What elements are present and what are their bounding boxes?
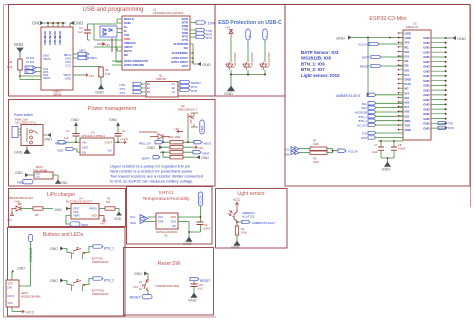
svg-text:VSS: VSS (171, 220, 177, 224)
svg-text:GND: GND (147, 146, 155, 150)
ground flag above LED1 (12, 267, 25, 281)
resistor RN2a (170, 141, 183, 144)
capacitor C1 1uF (64, 129, 80, 142)
svg-text:E1: E1 (147, 86, 151, 90)
svg-text:GND: GND (405, 36, 411, 40)
ground flag below R2 (95, 77, 104, 95)
net flag SCL (pullup) (285, 147, 299, 152)
svg-text:DTR: DTR (208, 22, 216, 26)
svg-text:1uF: 1uF (198, 287, 203, 291)
svg-text:VBAT: VBAT (81, 223, 89, 227)
svg-text:GND: GND (423, 126, 429, 130)
svg-text:EN: EN (405, 64, 409, 68)
net flag VCC3V (to EN pin) (358, 42, 403, 46)
net flag SDA (pullup) (284, 151, 299, 157)
net flag SBU1 (73, 49, 89, 56)
junction dots on GND bus (47, 22, 64, 24)
svg-text:GND: GND (54, 208, 62, 212)
wire pullups (299, 149, 338, 153)
svg-text:BTN_2: BTN_2 (104, 279, 114, 283)
section box ESP32-C3-Mini (285, 5, 470, 187)
junction light (236, 221, 238, 223)
net flag AMBIENT/LIGHT (237, 220, 275, 225)
net flag BATP (362, 55, 403, 59)
svg-text:GND: GND (423, 117, 429, 121)
IC U5 SHT41 (156, 213, 178, 238)
svg-text:NC: NC (405, 87, 409, 91)
svg-text:SCL: SCL (130, 215, 136, 219)
section box Buttons and LEDs (8, 228, 126, 317)
ground flag (ESP32 top-left) (336, 36, 368, 41)
svg-text:D3 ESD5B5: D3 ESD5B5 (251, 52, 254, 66)
wires RN2 left (160, 127, 196, 157)
ground (reset cap) (188, 293, 197, 303)
svg-text:Light sensor: Light sensor (237, 191, 265, 197)
svg-text:BRCM0335AC1UDA: BRCM0335AC1UDA (9, 196, 33, 200)
svg-text:GND: GND (423, 60, 429, 64)
wire branch 1 (230, 36, 232, 62)
svg-text:GND: GND (423, 41, 429, 45)
svg-text:SDA: SDA (130, 221, 136, 225)
svg-text:NSR0320MW2: NSR0320MW2 (139, 130, 158, 134)
svg-text:AP2112K-3.3TRG1: AP2112K-3.3TRG1 (81, 134, 105, 138)
svg-text:GND: GND (336, 36, 345, 41)
ground flag (button 1) (50, 247, 69, 253)
svg-text:WS2812B: WS2812B (29, 248, 33, 262)
svg-text:SDA: SDA (284, 153, 290, 157)
wire VOUT to +VCC (114, 141, 122, 143)
net flags right of Q1: RESET RTS DTR (177, 80, 201, 93)
net flag RESET (cap branch) (190, 277, 211, 284)
svg-text:LiPo charger: LiPo charger (47, 192, 76, 198)
svg-text:100k: 100k (241, 231, 247, 235)
resistor R8 10k (310, 151, 327, 164)
svg-text:BUTTON: BUTTON (92, 257, 103, 261)
ground flag right of U1 (197, 62, 211, 67)
svg-text:RN2 100k: RN2 100k (168, 135, 181, 139)
battery connector BAT1 (33, 165, 53, 179)
junction C2/VOUT (117, 141, 119, 143)
svg-text:IO7: IO7 (405, 105, 410, 109)
label BUTTON1 SKRPACE010 (92, 289, 109, 297)
net flag WS2812B vertical (28, 235, 33, 263)
left pin stubs of U1 (94, 19, 122, 65)
svg-text:GND: GND (50, 247, 58, 251)
svg-text:GND: GND (423, 50, 429, 54)
svg-text:GND: GND (423, 55, 429, 59)
svg-text:VCC3V: VCC3V (199, 195, 203, 204)
net flag VCC3V vertical (198, 192, 202, 217)
net flag REG_5V (to VIN) (55, 141, 80, 146)
svg-text:IO5: IO5 (405, 96, 410, 100)
svg-text:BTN_2: IO7: BTN_2: IO7 (301, 67, 325, 72)
net flag RESET (below switch) (130, 291, 152, 300)
resistor R4 100k (235, 226, 247, 235)
svg-text:AL-LPT1Q: AL-LPT1Q (242, 214, 254, 218)
svg-text:VBUS: VBUS (43, 36, 47, 45)
svg-text:GND: GND (17, 267, 25, 271)
svg-text:VSS: VSS (73, 210, 79, 214)
labels Q3 (242, 211, 256, 218)
transistor pair Q1 UMH3N (auto reset) (146, 74, 178, 98)
svg-text:Buttons and LEDs: Buttons and LEDs (43, 232, 84, 238)
wire WS2812B net to LED1 DIN (19, 242, 31, 287)
svg-text:WS2812B: IO8: WS2812B: IO8 (301, 56, 331, 61)
svg-text:GND: GND (457, 36, 466, 41)
svg-text:D+: D+ (248, 34, 252, 38)
svg-text:CP2102N-A01-GQFN24: CP2102N-A01-GQFN24 (153, 11, 184, 15)
svg-text:SKRPACE010: SKRPACE010 (92, 292, 109, 296)
IC U4 MCP73831 (66, 196, 99, 219)
LED LED1 WS2812B-MINI (6, 280, 41, 307)
ground flag (RN2 row4 right) (196, 155, 209, 160)
svg-text:+5V: +5V (198, 146, 203, 150)
svg-text:DTR: DTR (119, 83, 125, 87)
svg-text:+5V: +5V (7, 218, 12, 222)
svg-text:+3V: +3V (105, 43, 110, 47)
svg-text:SCL: SCL (362, 102, 368, 106)
svg-text:SCL: SCL (285, 148, 291, 152)
switch SW BTN1 (69, 247, 85, 259)
junctions SHT (188, 216, 201, 233)
wire branch 2 (247, 40, 249, 62)
svg-text:C9: C9 (204, 223, 208, 227)
svg-text:VBAT: VBAT (17, 181, 25, 185)
wire LED to R5 (21, 208, 33, 210)
svg-text:U4: U4 (79, 196, 83, 200)
ground below switch (14, 146, 30, 155)
svg-text:VIN: VIN (82, 141, 87, 145)
net flag BATP (RN2 row4) (142, 156, 160, 161)
USB-C connector J1 (41, 27, 73, 97)
net flags bottom-right (TXD RXD) (438, 122, 454, 131)
net flag REG_5V (RN2 row1) (139, 141, 163, 146)
wire GND bus above USB-C connector (44, 23, 72, 27)
svg-text:GND: GND (405, 32, 411, 36)
svg-text:1TS006B-2300-4300: 1TS006B-2300-4300 (155, 284, 180, 288)
svg-text:Temperature/Humidity: Temperature/Humidity (143, 196, 191, 202)
svg-text:RTS: RTS (120, 87, 126, 91)
svg-text:BATP: BATP (362, 56, 370, 60)
section box Power management (9, 100, 216, 187)
junctions on join bus (230, 74, 266, 76)
svg-text:DOUT: DOUT (8, 295, 16, 298)
power flag VCC3V (pullups) (338, 149, 358, 154)
svg-text:U5: U5 (164, 234, 168, 238)
svg-text:E2: E2 (172, 86, 176, 90)
net flags left of Q1 (119, 82, 145, 95)
svg-text:RESET: RESET (200, 279, 211, 283)
junctions right of U1 (192, 52, 194, 63)
section box ESD Protection on USB-C (215, 5, 285, 97)
net flag SCL (SHT41) (130, 215, 148, 221)
svg-text:WS2812B-MINI: WS2812B-MINI (21, 295, 41, 299)
ground flag left of BAT1 (15, 171, 34, 177)
svg-text:A7 B11: A7 B11 (26, 61, 35, 64)
power arrow +5V (RN2 row2 right) (193, 146, 203, 150)
svg-text:VDD: VDD (57, 149, 64, 153)
capacitor C2 1uF (115, 129, 126, 142)
svg-text:GND: GND (44, 138, 52, 142)
ground symbol below ESD diodes (224, 86, 235, 96)
svg-text:GND: GND (423, 84, 429, 88)
net flag DTR (196, 21, 216, 26)
transistor Q2 symbol (188, 113, 198, 127)
power arrow +5V (VDD) (99, 216, 105, 226)
svg-text:EXT: EXT (182, 64, 188, 68)
svg-text:EP: EP (172, 224, 176, 228)
svg-text:RTS: RTS (206, 36, 212, 40)
switch SW2 body (21, 125, 43, 146)
svg-text:TXD: TXD (405, 124, 411, 128)
svg-text:VBUS: VBUS (48, 36, 52, 45)
svg-text:VBUS: VBUS (43, 57, 51, 61)
svg-text:10k0: 10k0 (313, 160, 319, 164)
svg-text:RESET: RESET (130, 296, 141, 300)
resistor R1 5.1k (7, 59, 22, 76)
svg-text:GND: GND (423, 69, 429, 73)
svg-text:GND: GND (224, 91, 233, 96)
svg-text:B2: B2 (147, 90, 151, 94)
svg-text:Power switch: Power switch (14, 113, 33, 117)
svg-text:VBUS: VBUS (203, 142, 211, 146)
svg-text:D2 ESD5B5: D2 ESD5B5 (234, 52, 237, 66)
svg-text:BTN_1: BTN_1 (359, 115, 368, 119)
svg-text:GND: GND (32, 21, 41, 26)
svg-text:STAT: STAT (73, 207, 80, 211)
svg-text:GND: GND (423, 107, 429, 111)
ground symbol (left, above R1) (14, 42, 23, 59)
svg-text:C7: C7 (374, 143, 378, 147)
svg-text:GND: GND (60, 181, 68, 185)
svg-text:Power management: Power management (88, 106, 137, 112)
net flag AMBIENT/LIGHT (336, 93, 403, 98)
svg-text:C8: C8 (398, 143, 402, 147)
svg-text:C2: C2 (172, 90, 176, 94)
net flag VBUS (RN2 row1 right) (194, 141, 211, 146)
ground flag (reset switch) (134, 272, 148, 279)
ground (light sensor) (231, 235, 240, 250)
svg-text:GND: GND (82, 146, 88, 150)
svg-text:to IO3, so ESP32 can measure b: to IO3, so ESP32 can measure battery vol… (110, 179, 193, 184)
svg-text:5.1k: 5.1k (105, 72, 111, 76)
svg-text:3V3: 3V3 (405, 41, 410, 45)
svg-text:D+: D+ (26, 66, 30, 70)
svg-text:SCL: SCL (158, 215, 164, 219)
svg-text:UMH3N: UMH3N (156, 77, 166, 81)
svg-text:16PIN: 16PIN (53, 93, 61, 97)
svg-text:Reset SW: Reset SW (158, 261, 181, 267)
ground flag (STAT net) (54, 207, 70, 212)
svg-text:IO6: IO6 (405, 101, 410, 105)
wire GND join bus (231, 70, 265, 86)
net flag VBAT (below U4) (66, 216, 89, 228)
svg-text:SK-12D02-CT-L1: SK-12D02-CT-L1 (15, 121, 37, 125)
svg-text:10k0: 10k0 (313, 142, 319, 146)
svg-text:VBAT: VBAT (200, 125, 204, 132)
svg-text:GND: GND (423, 122, 429, 126)
svg-text:NC: NC (108, 149, 112, 153)
svg-text:GND: GND (202, 62, 211, 67)
ESD array U7 (blue) (100, 26, 117, 37)
svg-text:VOUT: VOUT (105, 141, 113, 145)
svg-text:PROG: PROG (89, 207, 97, 211)
svg-text:VDD: VDD (91, 214, 97, 218)
svg-text:R1: R1 (9, 60, 13, 64)
svg-text:VBUS: VBUS (53, 36, 57, 45)
junction C1/VIN (75, 141, 77, 143)
capacitor C4 (78, 24, 91, 40)
svg-text:GND: GND (423, 112, 429, 116)
svg-text:VCC3V: VCC3V (358, 43, 368, 47)
net flag BTN_2 (85, 277, 114, 285)
ground flag GND (second, top of connector) (70, 21, 83, 26)
note text (resistor explanation, 4 lines) (110, 164, 203, 184)
net flag VBAT (RN2 row3 right) (193, 151, 210, 156)
svg-text:C1: C1 (172, 82, 176, 86)
net flag D+ vertical (branch 2 top) (246, 29, 252, 40)
net flags column (SCL SDA WS2812B BTN_1 BTN_2 ...) (355, 102, 403, 128)
wire (net from GND down left side) (368, 38, 403, 95)
svg-text:GPIO.2/RS485: GPIO.2/RS485 (124, 63, 144, 67)
wire D+/D- to CP2102 (88, 24, 123, 62)
capacitor C8 100nF (391, 143, 406, 151)
svg-text:ESP32-C3: ESP32-C3 (406, 25, 419, 29)
wire VDD net (178, 217, 201, 237)
svg-text:IO2: IO2 (405, 50, 410, 54)
svg-text:GND: GND (50, 279, 58, 283)
svg-text:GND: GND (183, 242, 192, 246)
svg-text:GND: GND (14, 42, 23, 47)
net flags TXD RXD (361, 131, 403, 140)
net flag BTN_1 (85, 245, 114, 253)
svg-text:VBAT: VBAT (202, 152, 210, 156)
svg-text:IO3: IO3 (405, 55, 410, 59)
diode D1 NSR0320MW2 (139, 130, 169, 139)
svg-text:AMBIENT/LIGHT: AMBIENT/LIGHT (252, 221, 275, 225)
svg-text:VDD: VDD (170, 215, 176, 219)
svg-text:B1: B1 (147, 82, 151, 86)
ground flag above C2 (109, 118, 120, 134)
ground flag right of switch (43, 133, 52, 142)
capacitor C10 (191, 283, 204, 293)
svg-text:D4 ESD5B5: D4 ESD5B5 (268, 52, 271, 66)
svg-text:RTS: RTS (120, 91, 126, 95)
svg-text:GND: GND (65, 77, 71, 81)
wire VBUS with +5V arrow (73, 74, 94, 79)
svg-text:GND: GND (423, 36, 429, 40)
svg-text:GND: GND (201, 156, 209, 160)
svg-text:IO9: IO9 (405, 114, 410, 118)
ground flag above C1 (71, 118, 79, 134)
net flag D+ (left) (25, 66, 41, 70)
wire BAT1 right to GND (53, 175, 68, 185)
wire decoupling bus (378, 141, 403, 162)
resistor RN2d (170, 156, 183, 159)
section box USB and programming (9, 5, 216, 97)
svg-text:1uF: 1uF (64, 136, 69, 140)
power arrow +VCC (120, 137, 129, 144)
svg-text:IO4: IO4 (405, 91, 410, 95)
svg-text:GND: GND (114, 217, 122, 221)
svg-text:BTN_2: BTN_2 (359, 119, 368, 123)
svg-text:GND: GND (15, 171, 23, 175)
svg-text:C2: C2 (122, 129, 126, 133)
svg-text:BTN_1: BTN_1 (104, 247, 114, 251)
net flag VBAT vertical (right of Q2) (200, 120, 204, 134)
svg-text:RXD: RXD (361, 136, 367, 140)
svg-text:SDA: SDA (158, 220, 164, 224)
ground symbol below caps (382, 162, 391, 172)
module U2 ESP32-C3-MINI-1 (403, 22, 431, 141)
net flag SBU2 (73, 56, 97, 60)
switch SW BTN2 (69, 279, 85, 291)
net flag RTS (196, 35, 212, 40)
net flag VDD (to EN) (57, 147, 80, 152)
pin label texts A6 A7 B12 (blue small, left of connector) (26, 57, 35, 64)
svg-text:CHG: CHG (14, 199, 20, 203)
svg-text:VCC: VCC (133, 285, 139, 289)
svg-text:GND: GND (95, 90, 104, 95)
net flag SDA (SHT41) (130, 220, 144, 226)
svg-text:VCC: VCC (233, 198, 241, 202)
svg-text:SKRPACE010: SKRPACE010 (92, 260, 109, 264)
svg-text:+VCC: +VCC (120, 137, 129, 141)
section box Reset SW (124, 248, 214, 316)
svg-text:REG_5V: REG_5V (55, 142, 67, 146)
switch SW3 (reset) (133, 279, 150, 291)
svg-text:DTR: DTR (191, 89, 198, 93)
ground flag GND (left of top bus) (32, 21, 44, 26)
power flag VCC (light sensor) (233, 198, 241, 208)
section box Light sensor (216, 189, 288, 249)
LED D5 (16, 203, 22, 212)
svg-text:RXD: RXD (448, 126, 454, 130)
svg-text:+VCC: +VCC (25, 311, 35, 315)
svg-text:GND: GND (405, 78, 411, 82)
svg-text:D-: D- (265, 35, 269, 38)
svg-text:SUSPENDb: SUSPENDb (172, 51, 189, 55)
svg-text:GND: GND (423, 46, 429, 50)
ground symbol SHT (183, 237, 192, 246)
section box LiPo charger (9, 189, 126, 227)
net flag RESET (360, 64, 403, 68)
svg-text:GND: GND (423, 103, 429, 107)
svg-text:VCC3V: VCC3V (348, 150, 358, 154)
svg-text:SBU1: SBU1 (43, 76, 51, 80)
wire branch 3 (264, 40, 266, 62)
svg-text:ESP32-C3-Mini: ESP32-C3-Mini (369, 16, 406, 22)
svg-text:SDA: SDA (361, 106, 367, 110)
svg-text:GND: GND (423, 98, 429, 102)
svg-text:IO1: IO1 (405, 73, 410, 77)
svg-text:+5V: +5V (89, 74, 94, 78)
ground flag (ESP32 top-right) (446, 36, 466, 41)
svg-text:GND: GND (423, 93, 429, 97)
svg-text:SHT4xA-AD1B-R2: SHT4xA-AD1B-R2 (156, 230, 178, 234)
power arrow +5V (LED anode) (7, 209, 16, 223)
IC U1 CP2102N-A01-GQFN24 (122, 8, 190, 71)
svg-text:REG_5V: REG_5V (139, 142, 151, 146)
svg-text:VBAT: VBAT (73, 214, 80, 218)
svg-text:TXD: TXD (448, 122, 453, 126)
svg-text:R4: R4 (241, 227, 245, 231)
svg-text:SBU2: SBU2 (90, 56, 97, 60)
svg-text:GND: GND (188, 299, 197, 303)
ground flag (button 2) (50, 279, 69, 285)
power arrow +5V (branch 1 top) (225, 26, 233, 37)
svg-text:TXD: TXD (362, 132, 367, 136)
